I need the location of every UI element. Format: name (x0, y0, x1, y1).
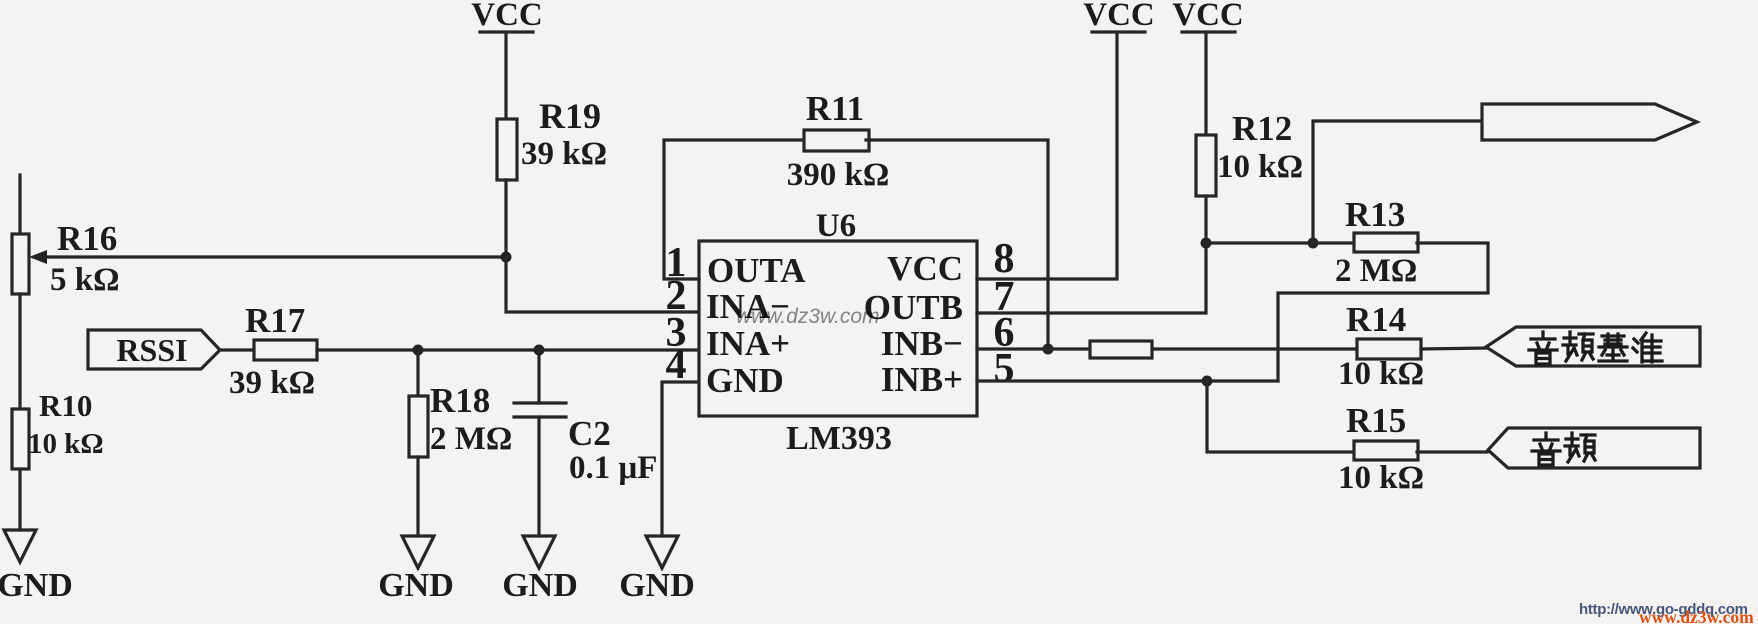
wire node down to pin 2 (506, 257, 699, 312)
svg-text:R10: R10 (39, 388, 92, 423)
flag 音频 (audio) (1488, 428, 1700, 468)
resistor R17 (229, 301, 317, 401)
wire pin 1 loop up to R11 (664, 140, 805, 279)
resistor R18 (409, 381, 512, 457)
wire R12 to node (1204, 196, 1207, 243)
svg-text:VCC: VCC (471, 0, 543, 33)
svg-text:5 kΩ: 5 kΩ (50, 262, 120, 298)
wire VCC to R19 (504, 34, 507, 119)
resistor R11 (787, 89, 890, 193)
resistor (unlabeled, pin 6) (1090, 341, 1152, 358)
wire R10 to ground (18, 469, 21, 530)
capacitor C2 (514, 403, 657, 486)
wire R13 to pin 5 (feedback) (1278, 243, 1488, 381)
node junction C2 (534, 345, 545, 356)
wire R11 down to pin 6 line (866, 140, 1048, 349)
wire node to R13 (1206, 241, 1354, 244)
svg-text:RSSI: RSSI (116, 332, 187, 368)
svg-text:VCC: VCC (1172, 0, 1244, 33)
svg-text:R19: R19 (539, 96, 601, 136)
wire R15 to flag (1417, 450, 1487, 453)
svg-text:R18: R18 (430, 381, 490, 420)
resistor R13 (1335, 195, 1418, 289)
resistor R19 (497, 96, 607, 180)
power VCC (pin 8) (1083, 0, 1155, 33)
comparator U6 (LM393) (699, 208, 977, 457)
wire R14 to flag (1421, 348, 1487, 349)
ground (pin 4) (619, 536, 695, 604)
node junction output branch (1308, 238, 1319, 249)
ground (C2) (502, 536, 578, 604)
node junction R11/INB- (1043, 344, 1054, 355)
svg-text:U6: U6 (816, 208, 856, 244)
svg-text:R14: R14 (1346, 300, 1406, 339)
svg-text:10 kΩ: 10 kΩ (1338, 356, 1424, 392)
flag 音频基准 (audio reference) (1486, 327, 1700, 366)
svg-text:GND: GND (502, 567, 578, 604)
svg-text:GND: GND (378, 567, 454, 604)
output flag connector (1482, 104, 1697, 140)
svg-text:10 kΩ: 10 kΩ (28, 428, 104, 460)
wire pin 6 line (977, 347, 1090, 350)
power VCC (top left) (471, 0, 543, 33)
svg-text:www.dz3w.com: www.dz3w.com (736, 305, 880, 328)
wire RSSI to R17 (220, 348, 254, 351)
wire pin 4 to ground (662, 382, 699, 536)
svg-text:R13: R13 (1345, 195, 1405, 234)
svg-text:VCC: VCC (887, 249, 963, 288)
svg-text:INB+: INB+ (881, 360, 963, 399)
svg-text:R11: R11 (806, 89, 864, 128)
node RSSI input flag (88, 330, 220, 369)
node junction INB+/R15 (1202, 376, 1213, 387)
svg-text:C2: C2 (568, 414, 611, 453)
ground (R18) (378, 536, 454, 604)
svg-text:5: 5 (994, 346, 1015, 392)
wire R17 to pin 3 (317, 348, 699, 351)
wire VCC to R12 (1204, 34, 1207, 135)
wire node down to R15 (1207, 381, 1354, 452)
svg-text:10 kΩ: 10 kΩ (1338, 460, 1424, 496)
wire node to R16 wiper (arrow) (29, 250, 506, 264)
wire node up to output flag (1313, 121, 1482, 243)
wire C2 to ground (537, 417, 540, 536)
svg-text:R15: R15 (1346, 401, 1406, 440)
svg-text:INA+: INA+ (706, 324, 790, 363)
wire node to C2 (537, 350, 540, 403)
svg-text:OUTA: OUTA (707, 251, 806, 290)
svg-text:www.dz3w.com: www.dz3w.com (1639, 607, 1754, 624)
potentiometer R16 (12, 175, 120, 298)
svg-text:39 kΩ: 39 kΩ (521, 136, 607, 172)
svg-text:LM393: LM393 (786, 420, 892, 457)
wire pin 8 to VCC (977, 34, 1117, 279)
node junction R12/OUTB/R13 (1201, 238, 1212, 249)
svg-text:GND: GND (619, 567, 695, 604)
wire R19 to node (504, 180, 507, 257)
ground (left) (0, 530, 73, 604)
svg-text:VCC: VCC (1083, 0, 1155, 33)
svg-text:10 kΩ: 10 kΩ (1217, 149, 1303, 185)
svg-text:2 MΩ: 2 MΩ (1335, 253, 1417, 289)
wire pin 7 up to R12 node (977, 243, 1206, 313)
wire pin 5 line (977, 379, 1278, 382)
wire R18 to ground (416, 457, 419, 536)
svg-text:GND: GND (706, 361, 784, 400)
resistor R10 (12, 388, 104, 469)
svg-text:39 kΩ: 39 kΩ (229, 365, 315, 401)
svg-text:R12: R12 (1232, 109, 1292, 148)
svg-text:R16: R16 (57, 219, 117, 258)
resistor R15 (1338, 401, 1424, 496)
svg-text:GND: GND (0, 567, 73, 604)
svg-text:R17: R17 (245, 301, 305, 340)
svg-text:INB−: INB− (881, 324, 963, 363)
node junction R19/R16 wiper/INA- (501, 252, 512, 263)
svg-text:0.1 μF: 0.1 μF (569, 450, 657, 486)
node junction R18 (413, 345, 424, 356)
resistor R14 (1338, 300, 1424, 392)
resistor R12 (1196, 109, 1303, 196)
svg-text:4: 4 (666, 342, 687, 388)
svg-text:2 MΩ: 2 MΩ (430, 421, 512, 457)
wire R16 to R10 (18, 294, 21, 409)
svg-text:390 kΩ: 390 kΩ (787, 157, 890, 193)
wire node to R18 (416, 350, 419, 396)
power VCC (R12) (1172, 0, 1244, 33)
wire to R14 (1152, 347, 1357, 350)
